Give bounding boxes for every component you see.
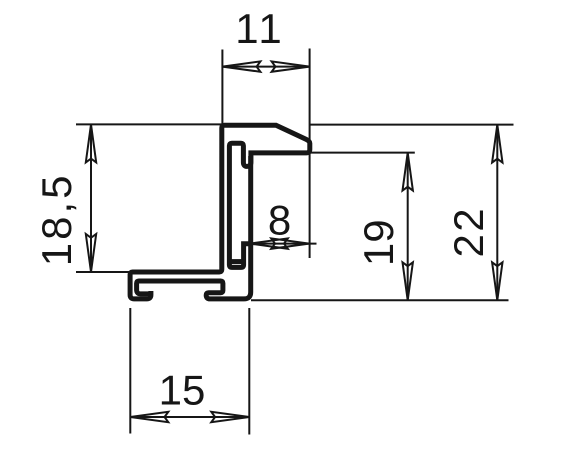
arrow 22 bottom	[492, 262, 502, 300]
extension line top-right (22 top face)	[310, 124, 514, 126]
svg-text:18,5: 18,5	[33, 173, 80, 267]
arrow 15 right	[211, 412, 249, 422]
arrow 19 bottom	[403, 262, 413, 300]
extension line 15 left	[129, 308, 131, 434]
svg-text:19: 19	[355, 219, 402, 266]
dimension line 18,5	[90, 124, 92, 272]
profile main outline	[130, 125, 310, 299]
svg-text:15: 15	[159, 366, 206, 413]
dimension line 22	[496, 125, 498, 301]
arrow 22 top	[492, 125, 502, 163]
dimension line 8	[243, 243, 317, 245]
extension line bottom (19/22)	[251, 299, 509, 301]
svg-text:11: 11	[235, 5, 285, 52]
arrow 8 left (tip at stem, pointing left)	[250, 238, 288, 248]
profile small bar between hook walls	[229, 259, 243, 264]
extension line 15 right	[248, 308, 250, 435]
arrow 8 right (pointing right)	[271, 238, 309, 248]
profile stem and bottom channel	[137, 156, 251, 299]
svg-text:22: 22	[445, 206, 492, 258]
arrow 15 left	[130, 412, 168, 422]
arrow 11 right	[272, 61, 310, 71]
extension line 19 top	[310, 152, 415, 154]
svg-text:8: 8	[268, 197, 291, 244]
dimension line 19	[407, 153, 409, 301]
arrow 11 left	[222, 61, 260, 71]
dimension line 11	[222, 66, 309, 68]
extension line 18,5 bottom	[76, 271, 133, 273]
arrow 18,5 bottom	[86, 234, 96, 272]
extension line 11/8 right	[309, 49, 311, 259]
arrow 18,5 top	[86, 124, 96, 162]
arrow 19 top	[403, 153, 413, 191]
dimension line 15	[130, 416, 249, 418]
extension line top-left (18,5 / top face)	[76, 123, 222, 125]
extension line 11 left	[221, 50, 223, 125]
